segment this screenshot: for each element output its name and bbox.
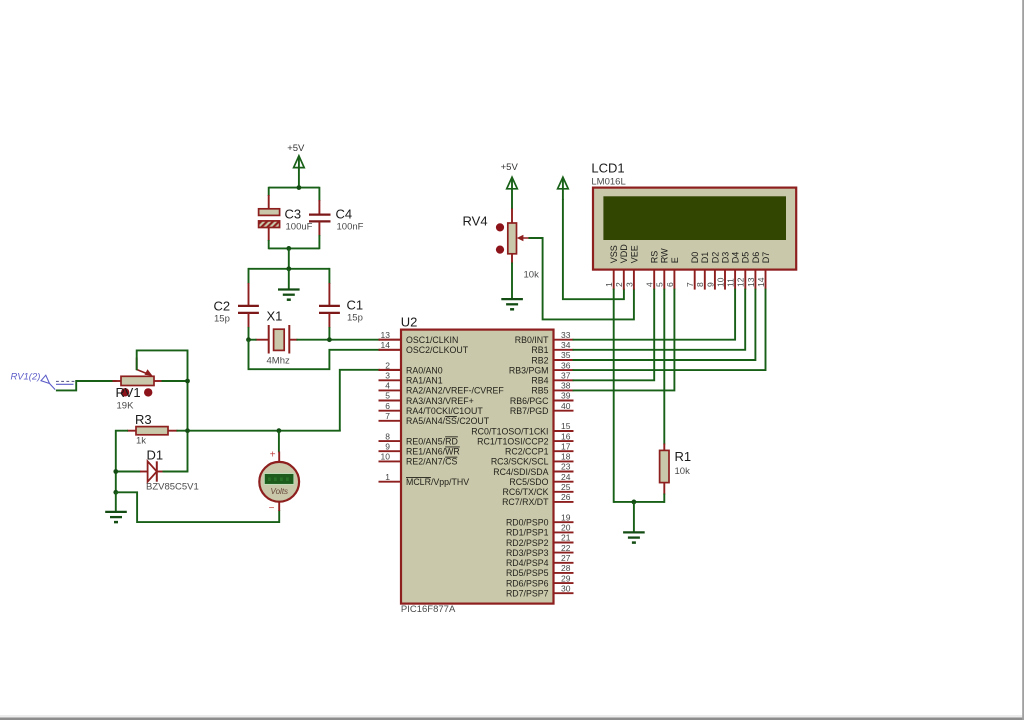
svg-text:19: 19 xyxy=(561,512,571,522)
svg-text:23: 23 xyxy=(561,462,571,472)
wire RB3-D7 xyxy=(573,289,766,371)
svg-text:RC4/SDI/SDA: RC4/SDI/SDA xyxy=(493,467,548,477)
svg-text:RC1/T1OSI/CCP2: RC1/T1OSI/CCP2 xyxy=(477,436,548,446)
wire R3 output row xyxy=(177,430,341,432)
svg-text:RB5: RB5 xyxy=(531,386,548,396)
wire terminal to RV1 xyxy=(56,381,117,390)
svg-text:21: 21 xyxy=(561,533,571,543)
svg-text:2: 2 xyxy=(614,282,624,287)
svg-text:4Mhz: 4Mhz xyxy=(267,356,290,367)
svg-text:LCD1: LCD1 xyxy=(591,160,624,175)
svg-text:D4: D4 xyxy=(731,252,741,264)
svg-text:25: 25 xyxy=(561,482,571,492)
voltmeter display xyxy=(264,474,293,485)
svg-text:5: 5 xyxy=(655,282,665,287)
svg-text:RE2/AN7/CS: RE2/AN7/CS xyxy=(406,457,457,467)
wire top rail C3-C4 xyxy=(269,187,320,189)
svg-text:6: 6 xyxy=(665,282,675,287)
svg-text:RC2/CCP1: RC2/CCP1 xyxy=(505,447,549,457)
svg-text:C1: C1 xyxy=(347,298,364,313)
LCD LM016L body xyxy=(593,188,796,270)
svg-text:−: − xyxy=(269,503,275,514)
svg-text:RD2/PSP2: RD2/PSP2 xyxy=(506,538,549,548)
wire RB5-E xyxy=(573,289,675,391)
svg-text:RB3/PGM: RB3/PGM xyxy=(509,365,549,375)
svg-text:D3: D3 xyxy=(720,252,730,264)
svg-text:D0: D0 xyxy=(690,252,700,264)
svg-text:RB6/PGC: RB6/PGC xyxy=(510,396,549,406)
U2 left pin names xyxy=(406,335,504,487)
svg-text:C4: C4 xyxy=(336,207,353,222)
wire to crystal loop xyxy=(288,248,290,269)
node ground net xyxy=(632,500,637,505)
svg-text:13: 13 xyxy=(746,277,756,287)
svg-text:D6: D6 xyxy=(751,252,761,264)
svg-text:35: 35 xyxy=(561,350,571,360)
node crystal right / C1 xyxy=(327,337,332,342)
svg-text:RW: RW xyxy=(660,248,670,263)
svg-text:34: 34 xyxy=(561,340,571,350)
svg-text:RD6/PSP6: RD6/PSP6 xyxy=(506,578,549,588)
svg-text:7: 7 xyxy=(685,282,695,287)
svg-text:RV1(2): RV1(2) xyxy=(11,372,41,383)
svg-text:RV4: RV4 xyxy=(463,213,488,228)
power arrow +5V (LCD VDD) xyxy=(558,177,569,200)
wire RV1 right to node xyxy=(162,380,188,382)
capacitor C3 (electrolytic) xyxy=(259,187,280,249)
svg-text:+: + xyxy=(270,449,276,460)
node crystal top xyxy=(286,266,291,271)
U2 left pin numbers xyxy=(381,330,391,482)
svg-text:+5V: +5V xyxy=(501,162,519,173)
wire RV1 wiper loop xyxy=(137,350,188,471)
wire RV4 bottom xyxy=(511,263,513,300)
svg-text:RS: RS xyxy=(650,251,660,264)
svg-text:1: 1 xyxy=(385,472,390,482)
svg-text:1k: 1k xyxy=(136,436,146,447)
svg-text:D5: D5 xyxy=(741,252,751,264)
ground (RV4) xyxy=(501,299,523,309)
U2 right pin names xyxy=(471,335,549,599)
svg-text:15: 15 xyxy=(561,421,571,431)
svg-text:D2: D2 xyxy=(710,252,720,264)
U2 right pin stubs xyxy=(554,340,574,594)
ground (D1) stem xyxy=(115,492,117,512)
svg-text:2: 2 xyxy=(385,360,390,370)
svg-text:R1: R1 xyxy=(675,449,692,464)
resistor R3 xyxy=(127,427,178,435)
svg-text:X1: X1 xyxy=(267,309,283,324)
potentiometer RV4 xyxy=(508,209,530,264)
svg-text:RD1/PSP1: RD1/PSP1 xyxy=(506,528,549,538)
wire crystal top rail xyxy=(249,268,330,270)
svg-text:RA1/AN1: RA1/AN1 xyxy=(406,376,443,386)
wire ground net horizontal xyxy=(614,501,665,503)
svg-text:RC5/SDO: RC5/SDO xyxy=(509,477,548,487)
svg-text:RA5/AN4/SS/C2OUT: RA5/AN4/SS/C2OUT xyxy=(406,416,490,426)
svg-text:RA4/T0CKI/C1OUT: RA4/T0CKI/C1OUT xyxy=(406,406,483,416)
svg-text:U2: U2 xyxy=(401,315,418,330)
node +5V rail xyxy=(297,185,302,190)
svg-text:RB2: RB2 xyxy=(531,355,548,365)
svg-text:RD4/PSP4: RD4/PSP4 xyxy=(506,558,549,568)
svg-text:D7: D7 xyxy=(761,252,771,264)
svg-text:11: 11 xyxy=(726,278,736,287)
node C3-C4 bottom xyxy=(286,246,291,251)
svg-text:C2: C2 xyxy=(214,299,231,314)
wire RB1-D5 xyxy=(573,289,746,350)
svg-text:27: 27 xyxy=(561,553,571,563)
crystal X1 xyxy=(256,325,298,354)
svg-text:VSS: VSS xyxy=(609,245,619,263)
svg-text:40: 40 xyxy=(561,401,571,411)
svg-text:39: 39 xyxy=(561,391,571,401)
svg-text:10: 10 xyxy=(381,452,391,462)
power arrow +5V (RV4) xyxy=(507,177,518,209)
window edge bottom xyxy=(0,715,1024,718)
node ground left xyxy=(113,490,118,495)
voltmeter digits xyxy=(268,477,289,481)
svg-text:5: 5 xyxy=(385,391,390,401)
wire to RA0 (pin2) xyxy=(340,370,401,431)
svg-text:4: 4 xyxy=(645,282,655,287)
svg-text:3: 3 xyxy=(624,282,634,287)
svg-text:RV1: RV1 xyxy=(116,385,141,400)
svg-text:RA3/AN3/VREF+: RA3/AN3/VREF+ xyxy=(406,396,474,406)
wire RV4 wiper to LCD VEE xyxy=(529,238,634,319)
LCD pin stubs xyxy=(614,270,766,290)
svg-text:MCLR/Vpp/THV: MCLR/Vpp/THV xyxy=(406,477,469,487)
wire VDD to LCD xyxy=(563,199,624,299)
svg-text:6: 6 xyxy=(385,401,390,411)
svg-text:15p: 15p xyxy=(347,313,363,324)
svg-text:C3: C3 xyxy=(285,207,302,222)
svg-text:VEE: VEE xyxy=(629,245,639,263)
svg-text:3: 3 xyxy=(385,371,390,381)
svg-text:OSC1/CLKIN: OSC1/CLKIN xyxy=(406,335,458,345)
svg-text:8: 8 xyxy=(695,282,705,287)
svg-text:RB1: RB1 xyxy=(531,345,548,355)
svg-text:10k: 10k xyxy=(524,270,540,281)
svg-text:29: 29 xyxy=(561,573,571,583)
svg-text:10: 10 xyxy=(715,277,725,287)
svg-text:E: E xyxy=(670,257,680,263)
diode D1 (zener) xyxy=(116,461,164,481)
wire R3 left elbow xyxy=(116,431,128,493)
svg-text:30: 30 xyxy=(561,583,571,593)
svg-text:14: 14 xyxy=(756,277,766,287)
U2 right pin numbers xyxy=(561,330,571,594)
svg-text:7: 7 xyxy=(385,411,390,421)
RV4 marker dots xyxy=(496,223,504,231)
power arrow +5V (top) xyxy=(294,156,305,188)
LCD screen xyxy=(603,196,786,240)
svg-text:14: 14 xyxy=(381,340,391,350)
wire meter top xyxy=(278,431,280,453)
svg-text:BZV85C5V1: BZV85C5V1 xyxy=(146,482,199,493)
node D1 anode xyxy=(113,469,118,474)
svg-text:17: 17 xyxy=(561,441,571,451)
svg-text:9: 9 xyxy=(705,282,715,287)
voltmeter body xyxy=(259,462,299,502)
LCD pin names xyxy=(609,244,771,264)
svg-text:OSC2/CLKOUT: OSC2/CLKOUT xyxy=(406,345,469,355)
svg-text:RA0/AN0: RA0/AN0 xyxy=(406,365,443,375)
U2 left pin stubs xyxy=(379,340,402,482)
ground (crystal) xyxy=(278,290,300,300)
ground (D1) xyxy=(105,512,127,522)
window edge right xyxy=(1022,0,1024,720)
svg-text:RA2/AN2/VREF-/CVREF: RA2/AN2/VREF-/CVREF xyxy=(406,386,504,396)
svg-text:37: 37 xyxy=(561,371,571,381)
wire RB0-D4 xyxy=(573,289,736,340)
wire bottom rail C3-C4 xyxy=(269,247,320,249)
ground (net) stem xyxy=(633,502,635,533)
svg-text:13: 13 xyxy=(381,330,391,340)
svg-text:10k: 10k xyxy=(675,466,691,477)
node RV1 right xyxy=(185,379,190,384)
svg-text:100nF: 100nF xyxy=(337,222,364,233)
capacitor C2 xyxy=(238,268,259,341)
svg-text:33: 33 xyxy=(561,330,571,340)
svg-text:RB0/INT: RB0/INT xyxy=(515,335,549,345)
svg-text:RB7/PGD: RB7/PGD xyxy=(510,406,549,416)
svg-text:12: 12 xyxy=(736,277,746,287)
wire LCD VSS to ground net xyxy=(613,289,615,503)
node R3/meter xyxy=(277,428,282,433)
wire OSC2 loop (pin14) xyxy=(249,340,402,370)
svg-text:18: 18 xyxy=(561,452,571,462)
ground (net) xyxy=(623,532,645,542)
svg-text:1: 1 xyxy=(604,282,614,287)
svg-text:16: 16 xyxy=(561,431,571,441)
svg-text:PIC16F877A: PIC16F877A xyxy=(401,604,456,615)
svg-text:8: 8 xyxy=(385,431,390,441)
svg-text:RE0/AN5/RD: RE0/AN5/RD xyxy=(406,436,458,446)
svg-text:20: 20 xyxy=(561,523,571,533)
svg-text:19K: 19K xyxy=(117,401,135,412)
svg-text:VDD: VDD xyxy=(619,244,629,264)
wire D1 cathode up xyxy=(163,471,189,473)
svg-text:100uF: 100uF xyxy=(286,222,313,233)
svg-text:RC3/SCK/SCL: RC3/SCK/SCL xyxy=(491,457,549,467)
svg-text:38: 38 xyxy=(561,381,571,391)
svg-text:RE1/AN6/WR: RE1/AN6/WR xyxy=(406,447,460,457)
svg-text:36: 36 xyxy=(561,360,571,370)
svg-text:Volts: Volts xyxy=(271,487,289,496)
svg-text:22: 22 xyxy=(561,543,571,553)
svg-text:+5V: +5V xyxy=(287,143,305,154)
svg-text:RC6/TX/CK: RC6/TX/CK xyxy=(503,487,549,497)
svg-text:RD0/PSP0: RD0/PSP0 xyxy=(506,518,549,528)
svg-text:RD3/PSP3: RD3/PSP3 xyxy=(506,548,549,558)
RV1 marker dots xyxy=(121,388,129,396)
IC U2 body (PIC16F877A) xyxy=(401,330,554,604)
potentiometer RV1 xyxy=(113,358,163,386)
svg-text:R3: R3 xyxy=(135,412,152,427)
svg-text:RC7/RX/DT: RC7/RX/DT xyxy=(502,497,549,507)
wire OSC1 (pin13) xyxy=(249,339,402,341)
resistor R1 xyxy=(660,289,669,503)
node crystal left xyxy=(246,337,251,342)
svg-text:9: 9 xyxy=(385,441,390,451)
ground (crystal) stem xyxy=(288,269,290,290)
terminal RV1(2) symbol xyxy=(41,375,75,389)
svg-text:26: 26 xyxy=(561,492,571,502)
capacitor C4 xyxy=(309,187,331,249)
svg-text:LM016L: LM016L xyxy=(591,177,625,188)
svg-text:D1: D1 xyxy=(700,252,710,264)
wire meter bottom loop xyxy=(116,492,279,522)
capacitor C1 xyxy=(319,268,340,341)
svg-text:24: 24 xyxy=(561,472,571,482)
svg-text:RD5/PSP5: RD5/PSP5 xyxy=(506,568,549,578)
svg-text:RB4: RB4 xyxy=(531,376,548,386)
svg-text:D1: D1 xyxy=(147,447,164,462)
svg-text:4: 4 xyxy=(385,381,390,391)
voltmeter leads xyxy=(278,452,280,512)
node R3/RV1 xyxy=(185,428,190,433)
svg-text:28: 28 xyxy=(561,563,571,573)
svg-text:RD7/PSP7: RD7/PSP7 xyxy=(506,589,549,599)
LCD pin numbers 1-14 xyxy=(604,277,766,287)
wire RB4-RS xyxy=(573,289,655,381)
wire RB2-D6 xyxy=(573,289,756,360)
svg-text:15p: 15p xyxy=(214,314,230,325)
svg-text:RC0/T1OSO/T1CKI: RC0/T1OSO/T1CKI xyxy=(471,426,548,436)
